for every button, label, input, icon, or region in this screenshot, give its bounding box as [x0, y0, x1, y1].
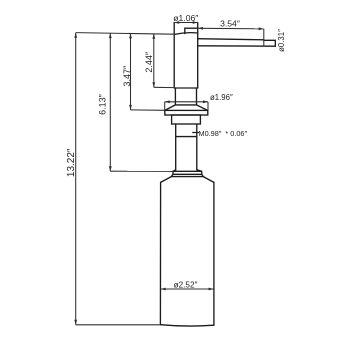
ext 3.54 right [263, 29, 265, 47]
spout tip top [264, 39, 276, 41]
svg-text:ø1.06″: ø1.06″ [173, 13, 198, 23]
dim 3.47 line [130, 33, 132, 110]
arrows 3.54 [198, 27, 203, 30]
ext 1.96 left [164, 102, 166, 110]
leader M0.98 [193, 132, 199, 134]
dim 2.52 line [161, 288, 214, 290]
arrows 2.44 [152, 34, 155, 39]
ext 6.13 [110, 170, 173, 172]
svg-text:3.54″: 3.54″ [220, 19, 240, 29]
arrows 3.47 [129, 33, 132, 38]
head dome top [175, 33, 198, 35]
collar flare [173, 170, 202, 172]
bottle bottom [160, 325, 214, 326]
svg-text:ø2.52″: ø2.52″ [174, 281, 198, 290]
head top step [185, 28, 198, 33]
collar base [171, 174, 203, 176]
bottom ext line [76, 324, 160, 326]
dim 6.13 line [109, 33, 111, 171]
head left edge [173, 23, 175, 89]
top ext line [76, 33, 175, 35]
dim 13.22 line [75, 33, 77, 325]
thread line [176, 136, 197, 138]
arrows 2.52 [161, 288, 166, 291]
spout bottom [198, 45, 276, 47]
svg-text:ø1.96″: ø1.96″ [210, 93, 233, 102]
bottle right [213, 182, 215, 325]
spout top [198, 39, 264, 40]
bottle shoulder [161, 177, 214, 183]
shaft right [196, 124, 198, 170]
flange trapezoid [165, 105, 208, 111]
ext 1.96 right [207, 102, 209, 110]
dim 3.54 line [185, 27, 264, 30]
neck left [174, 88, 176, 105]
head right edge [197, 23, 199, 89]
head bottom [175, 87, 198, 89]
svg-text:6.13″: 6.13″ [97, 93, 107, 115]
dim line d1.06 [174, 22, 198, 24]
ext 3.47 [131, 109, 165, 111]
svg-text:M0.98″ * 0.06″: M0.98″ * 0.06″ [199, 129, 248, 138]
spout tip end [274, 40, 276, 46]
collar box [173, 171, 202, 174]
arrows 6.13 [109, 33, 112, 38]
svg-text:3.47″: 3.47″ [122, 65, 132, 87]
bottle left [159, 182, 161, 324]
svg-text:2.44″: 2.44″ [144, 51, 154, 73]
svg-text:ø0.31″: ø0.31″ [277, 29, 286, 52]
flange ring [165, 110, 208, 115]
lock nut [172, 115, 201, 124]
svg-text:13.22″: 13.22″ [66, 148, 77, 177]
arrows d1.06 [174, 21, 179, 24]
shaft left [175, 124, 177, 170]
neck right [196, 88, 198, 105]
dim 1.96 line [165, 101, 208, 103]
dim 2.44 line [153, 34, 155, 88]
arrows 1.96 [165, 100, 170, 103]
arrows 13.22 [74, 33, 77, 38]
ext 2.44 [154, 86, 175, 88]
